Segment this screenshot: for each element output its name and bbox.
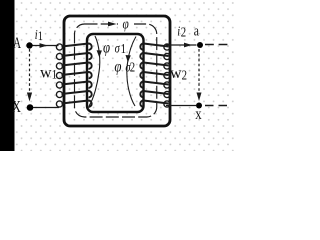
svg-text:w: w	[40, 64, 52, 81]
svg-text:2: 2	[181, 24, 186, 39]
svg-text:2: 2	[182, 67, 187, 82]
svg-text:1: 1	[52, 67, 57, 81]
svg-text:w: w	[170, 65, 182, 82]
svg-text:X: X	[12, 98, 21, 116]
svg-text:φ: φ	[114, 58, 121, 76]
svg-text:x: x	[195, 106, 202, 124]
svg-text:A: A	[13, 34, 21, 51]
svg-text:σ: σ	[115, 40, 121, 56]
svg-text:1: 1	[121, 41, 126, 56]
svg-text:2: 2	[130, 60, 135, 75]
svg-text:a: a	[194, 22, 199, 39]
svg-text:φ: φ	[123, 15, 129, 32]
svg-text:φ: φ	[103, 39, 110, 57]
svg-text:1: 1	[38, 29, 43, 43]
